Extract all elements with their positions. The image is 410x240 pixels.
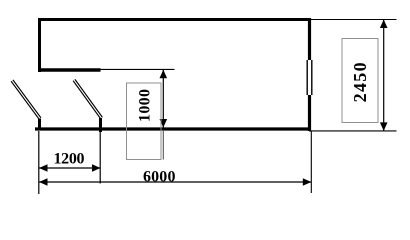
wire interior thin line: [101, 68, 175, 70]
door jamb right: [99, 118, 102, 132]
svg-text:6000: 6000: [143, 168, 176, 185]
window W1 white gap: [305, 60, 315, 95]
wall top: [38, 18, 311, 21]
window W1 inner line: [311, 60, 313, 95]
extension line 6000 left: [38, 131, 40, 194]
label box 2450: [342, 39, 378, 123]
svg-text:1000: 1000: [137, 89, 154, 122]
door leaf D2: [73, 79, 102, 118]
extension line 1000 below wall: [162, 131, 164, 160]
svg-text:2450: 2450: [350, 62, 370, 102]
dimension line 2450: [380, 20, 388, 131]
dimension line 1000: [160, 70, 168, 128]
dimension line 6000: [39, 178, 311, 186]
wall right: [308, 18, 311, 131]
extension line 2450 bottom: [309, 130, 397, 132]
dimension line 1200: [39, 164, 101, 172]
door jamb left: [38, 119, 41, 128]
extension line 6000 right: [310, 131, 312, 193]
wall bottom: [35, 127, 311, 130]
window W1 outer line: [306, 60, 308, 95]
svg-text:1200: 1200: [54, 150, 85, 167]
extension line 1200 right: [99, 131, 101, 184]
label box 1000: [127, 83, 162, 160]
wall interior stub: [38, 68, 101, 72]
extension line 2450 top: [311, 19, 397, 21]
door leaf D1: [11, 80, 41, 119]
wall left upper: [38, 18, 41, 72]
